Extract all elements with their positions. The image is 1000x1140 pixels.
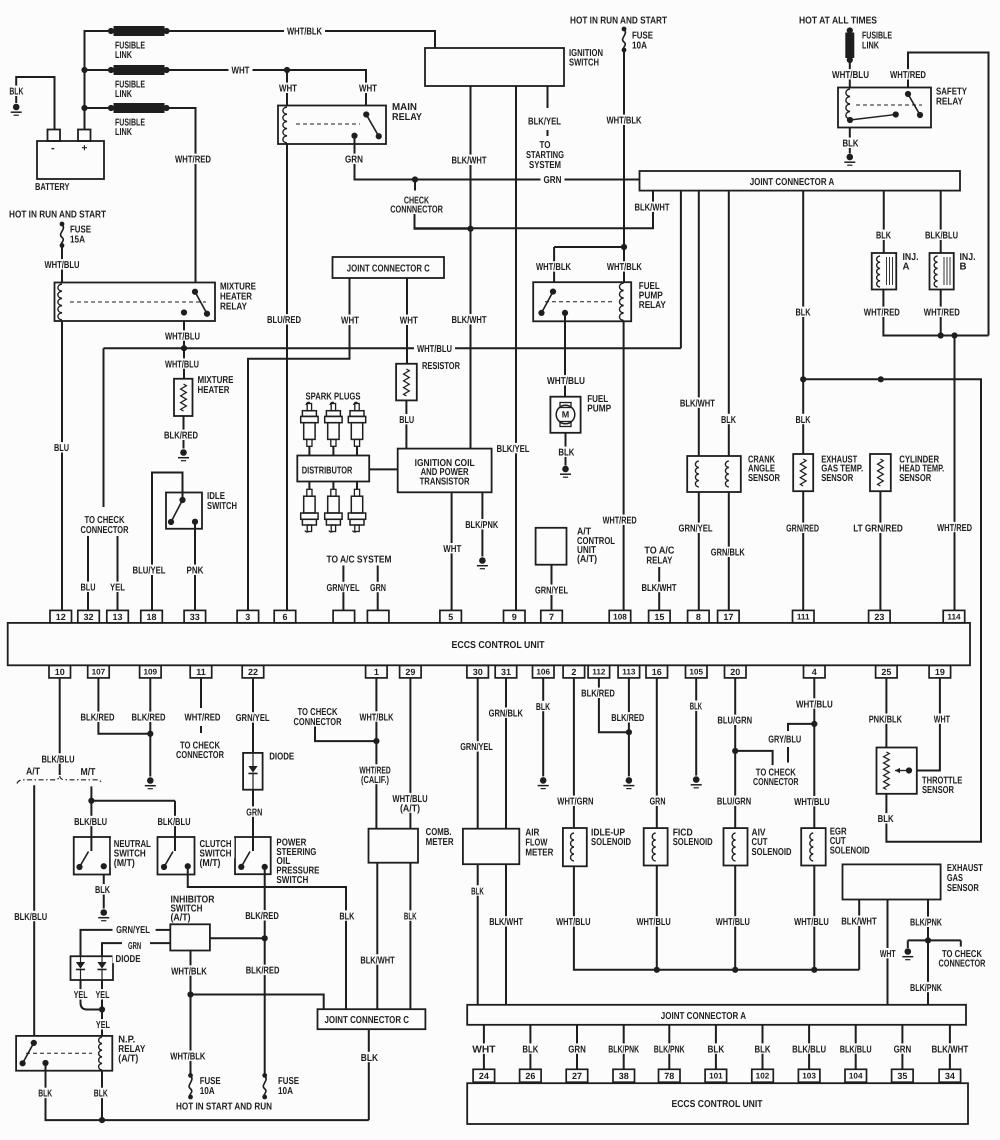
wire WHT pin 19 to throttle sensor (917, 678, 940, 771)
svg-text:BLK/WHT: BLK/WHT (452, 315, 487, 326)
svg-text:-: - (51, 143, 55, 155)
svg-text:WHT/RED: WHT/RED (924, 308, 960, 319)
svg-text:RELAY: RELAY (220, 302, 247, 313)
svg-text:WHT: WHT (359, 84, 377, 95)
svg-text:SENSOR: SENSOR (922, 785, 955, 796)
svg-text:WHT/GRN: WHT/GRN (557, 797, 593, 808)
wire BLK/PNK ignition coil to ground (481, 492, 483, 556)
svg-text:CONNNECTOR: CONNNECTOR (390, 204, 443, 215)
svg-text:1: 1 (374, 667, 379, 677)
svg-text:LINK: LINK (862, 41, 880, 52)
svg-text:BLK/RED: BLK/RED (245, 911, 279, 922)
stub to A/C relay (pin 15) (658, 567, 660, 610)
svg-text:YEL: YEL (96, 1020, 110, 1031)
fuse 10A (hot in run and start) (622, 27, 627, 247)
svg-text:BLK: BLK (558, 448, 575, 459)
svg-text:PNK: PNK (187, 566, 205, 577)
svg-text:SYSTEM: SYSTEM (529, 160, 561, 171)
fuel pump (550, 397, 580, 433)
wire PNK/BLK pin 25 to throttle sensor (885, 678, 887, 748)
svg-text:BLK/WHT: BLK/WHT (680, 398, 715, 409)
svg-text:(A/T): (A/T) (118, 1053, 138, 1064)
svg-text:CONNECTOR: CONNECTOR (81, 525, 130, 536)
svg-text:SENSOR: SENSOR (947, 883, 980, 894)
fuse 10A (BLK/RED) (262, 1073, 267, 1099)
wire WHT/RED fusible link 3 to mixture heater relay (167, 108, 196, 283)
svg-text:JOINT CONNECTOR A: JOINT CONNECTOR A (750, 177, 835, 188)
svg-text:WHT: WHT (443, 544, 461, 555)
svg-text:WHT/BLU: WHT/BLU (547, 376, 585, 387)
wire BLK air flow meter to joint connector A (477, 864, 479, 1005)
wire BLK/WHT exhaust gas sensor to solenoid bus (858, 900, 860, 970)
svg-text:101: 101 (709, 1072, 723, 1081)
svg-text:SWITCH: SWITCH (276, 875, 308, 886)
ground (ignition coil) (477, 557, 488, 569)
svg-text:113: 113 (622, 668, 636, 677)
svg-text:(A/T): (A/T) (577, 554, 597, 565)
wire BLK/RED mixture heater to ground (183, 416, 185, 449)
injector INJ. A (872, 253, 897, 290)
svg-text:GRN: GRN (568, 1044, 586, 1055)
wire battery positive to fusible links (81, 31, 108, 130)
svg-text:BLK/BLU: BLK/BLU (74, 817, 107, 828)
svg-text:GRN/BLK: GRN/BLK (711, 548, 746, 559)
svg-text:6: 6 (282, 612, 287, 622)
svg-text:BLK: BLK (471, 886, 484, 897)
ignition switch (425, 48, 564, 86)
wire GRN main relay to joint connector A (355, 136, 640, 183)
joint connector C (top) (333, 257, 445, 278)
ground (pin 113) (623, 777, 634, 788)
svg-text:27: 27 (572, 1071, 582, 1081)
svg-text:BLK/RED: BLK/RED (81, 713, 115, 724)
svg-text:GRY/BLU: GRY/BLU (768, 735, 801, 746)
fusible link 3 (108, 104, 170, 113)
svg-text:BLU/GRN: BLU/GRN (717, 797, 751, 808)
wire BLK/WHT air flow meter to joint connector A (505, 864, 507, 1005)
svg-text:SENSOR: SENSOR (899, 473, 932, 484)
wire WHT/RED to pin 114 (954, 336, 956, 611)
svg-text:BLK/WHT: BLK/WHT (635, 203, 670, 214)
svg-text:GRN: GRN (246, 807, 262, 818)
wire BLK fuel pump to ground (565, 433, 567, 466)
svg-text:M/T: M/T (81, 767, 96, 778)
svg-text:WHT/BLK: WHT/BLK (536, 262, 572, 273)
wire BLK/RED pin 112 to pin 113 joint (599, 678, 629, 732)
A/T M/T brace (17, 776, 102, 784)
svg-text:(A/T): (A/T) (171, 913, 191, 924)
wire PNK idle switch to pin 33 (194, 522, 196, 610)
svg-text:30: 30 (473, 667, 483, 677)
svg-text:DIODE: DIODE (269, 752, 294, 763)
svg-text:BLU/YEL: BLU/YEL (133, 566, 166, 577)
svg-text:BLK: BLK (361, 1053, 379, 1064)
svg-text:BLK: BLK (690, 702, 703, 713)
svg-text:WHT/BLU: WHT/BLU (165, 359, 199, 370)
injector INJ. B (930, 253, 954, 290)
svg-text:BLU/GRN: BLU/GRN (717, 716, 752, 727)
wire BLK/WHT comb meter to joint connector C (376, 863, 378, 1010)
ECCS control unit (8, 623, 970, 665)
svg-text:4: 4 (812, 667, 817, 677)
svg-text:JOINT CONNECTOR C: JOINT CONNECTOR C (347, 263, 430, 274)
wire WHT/BLK pin 1 to comb meter (315, 678, 380, 829)
wire GRN/YEL pin 30 to air flow meter (477, 678, 479, 829)
svg-text:SENSOR: SENSOR (748, 473, 781, 484)
svg-text:TRANSISTOR: TRANSISTOR (420, 476, 471, 487)
svg-text:SOLENOID: SOLENOID (752, 847, 792, 858)
svg-text:RELAY: RELAY (392, 112, 422, 123)
svg-text:2: 2 (571, 667, 576, 677)
ground (fuel pump) (560, 466, 571, 478)
svg-text:BLK/RED: BLK/RED (164, 431, 198, 442)
svg-text:13: 13 (112, 612, 122, 622)
svg-text:HOT IN RUN AND START: HOT IN RUN AND START (9, 209, 106, 220)
svg-text:10A: 10A (632, 41, 647, 52)
joint connector A (top) (640, 171, 961, 191)
EGR cut solenoid (801, 828, 826, 865)
wire BLK joint connector C to bottom rail (368, 1029, 370, 1120)
exhaust gas temp sensor (793, 454, 813, 491)
wire BLU mixture heater relay coil to pin 12 (61, 321, 63, 610)
svg-text:3: 3 (245, 612, 250, 622)
svg-text:102: 102 (756, 1072, 770, 1081)
svg-text:LINK: LINK (115, 127, 133, 138)
wire GRN diode to power steering switch (252, 790, 254, 837)
svg-text:BLK/RED: BLK/RED (611, 713, 644, 724)
svg-text:BLK: BLK (95, 885, 111, 896)
fusible link (hot at all times) (846, 27, 854, 87)
svg-text:BLK/WHT: BLK/WHT (932, 1044, 969, 1055)
svg-text:ECCS CONTROL UNIT: ECCS CONTROL UNIT (672, 1099, 763, 1110)
svg-text:PNK/BLK: PNK/BLK (869, 715, 903, 726)
wire BLK/WHT joint connector A to check connector line (415, 191, 654, 229)
svg-text:DISTRIBUTOR: DISTRIBUTOR (302, 466, 353, 477)
svg-text:YEL: YEL (96, 990, 110, 1001)
wire GRN/YEL inhibitor to diodes (81, 930, 113, 956)
svg-text:BLK/WHT: BLK/WHT (642, 583, 677, 594)
wire BLK sensor ground bus (803, 376, 981, 842)
svg-text:JOINT CONNECTOR A: JOINT CONNECTOR A (661, 1011, 746, 1022)
svg-text:A/T: A/T (26, 767, 40, 778)
wire BLK neutral switch to ground (103, 875, 105, 909)
wire BLK pin 106 to ground (542, 678, 544, 777)
wire WHT/RED injector bus (883, 290, 988, 339)
svg-text:WHT/BLU: WHT/BLU (417, 344, 452, 355)
svg-text:WHT/BLU: WHT/BLU (45, 260, 80, 271)
fusible link 2 (108, 66, 170, 75)
svg-text:BLK/YEL: BLK/YEL (497, 444, 530, 455)
svg-text:35: 35 (897, 1071, 907, 1081)
svg-text:SWITCH: SWITCH (569, 58, 599, 69)
svg-text:19: 19 (935, 667, 945, 677)
svg-text:BLK: BLK (9, 87, 24, 98)
svg-text:16: 16 (652, 667, 662, 677)
wire BLK/BLU A/T branch to N.P. relay (33, 785, 35, 1036)
wire BLU/YEL idle switch to pin 18 (152, 473, 183, 611)
svg-text:SWITCH: SWITCH (207, 501, 237, 512)
wire BLK comb meter to joint connector C (409, 863, 411, 1010)
svg-text:GRN: GRN (345, 155, 363, 166)
svg-text:26: 26 (525, 1071, 535, 1081)
svg-text:31: 31 (501, 667, 511, 677)
svg-text:107: 107 (92, 668, 106, 677)
wire WHT/BLU fuel pump relay to fuel pump (564, 313, 566, 397)
svg-text:BLK/BLU: BLK/BLU (14, 912, 47, 923)
svg-text:WHT: WHT (341, 316, 359, 327)
svg-text:BLK/PNK: BLK/PNK (654, 1044, 685, 1055)
wire distributor to ignition coil (369, 468, 398, 470)
crank angle sensor (687, 456, 741, 492)
svg-text:WHT/RED: WHT/RED (890, 70, 926, 81)
svg-text:LINK: LINK (115, 89, 133, 100)
svg-text:24: 24 (479, 1071, 489, 1081)
svg-text:7: 7 (549, 612, 554, 622)
svg-text:106: 106 (536, 668, 550, 677)
mixture heater relay (55, 283, 216, 322)
svg-text:WHT/RED: WHT/RED (937, 523, 972, 534)
wire WHT/RED fuel pump relay coil to pin 108 (623, 321, 625, 610)
main relay (278, 106, 386, 145)
svg-text:(A/T): (A/T) (400, 803, 420, 814)
wire BLK pin 105 to ground (695, 678, 697, 776)
A/T control unit (536, 528, 567, 610)
stubs to A/C system (pins blank) (343, 566, 377, 611)
svg-text:GRN/RED: GRN/RED (786, 524, 819, 535)
ignition coil and power transistor (398, 449, 492, 493)
svg-text:ECCS CONTROL UNIT: ECCS CONTROL UNIT (452, 640, 545, 651)
wire BLK safety relay to ground (849, 128, 851, 154)
svg-text:10A: 10A (200, 1086, 215, 1097)
svg-text:BLK/PNK: BLK/PNK (910, 983, 943, 994)
joint connector C (bottom) (318, 1009, 426, 1029)
svg-text:SENSOR: SENSOR (821, 473, 854, 484)
wire BLK/BLU M/T branch (88, 786, 175, 837)
wire GRN/YEL pin 22 to diode (252, 678, 254, 753)
safety relay (838, 88, 931, 128)
svg-text:BLK/BLU: BLK/BLU (925, 231, 958, 242)
svg-text:8: 8 (696, 612, 701, 622)
svg-text:WHT/BLK: WHT/BLK (360, 712, 395, 723)
svg-text:SPARK PLUGS: SPARK PLUGS (306, 391, 361, 402)
svg-text:YEL: YEL (74, 990, 88, 1001)
svg-text:BLK: BLK (843, 139, 860, 150)
svg-text:BLK: BLK (339, 911, 355, 922)
fuel pump relay (533, 282, 631, 321)
svg-text:WHT/BLU: WHT/BLU (796, 699, 833, 710)
wire GRN pin 16 to FICD solenoid (656, 678, 658, 828)
svg-text:HOT IN START AND RUN: HOT IN START AND RUN (176, 1102, 272, 1113)
svg-text:BLK: BLK (404, 911, 417, 922)
svg-text:BLK/WHT: BLK/WHT (841, 917, 877, 928)
svg-text:SOLENOID: SOLENOID (830, 846, 870, 857)
check connector (upper) (415, 180, 474, 232)
svg-text:BLU: BLU (54, 443, 69, 454)
svg-text:GRN/YEL: GRN/YEL (116, 925, 150, 936)
svg-text:CONNECTOR: CONNECTOR (294, 717, 343, 728)
svg-text:WHT/RED: WHT/RED (864, 308, 900, 319)
svg-text:9: 9 (512, 612, 517, 622)
ground (mixture heater) (178, 449, 189, 461)
svg-text:BLK: BLK (94, 1089, 109, 1100)
svg-text:GRN/YEL: GRN/YEL (460, 742, 493, 753)
svg-text:BLK/BLU: BLK/BLU (840, 1044, 872, 1055)
svg-text:GRN: GRN (650, 797, 666, 808)
svg-text:(M/T): (M/T) (200, 858, 221, 869)
ground (safety relay) (844, 154, 855, 166)
svg-text:GRN: GRN (370, 583, 386, 594)
svg-text:BLK/BLU: BLK/BLU (158, 817, 191, 828)
wire WHT ignition coil to pin 5 (451, 492, 453, 610)
svg-text:SOLENOID: SOLENOID (673, 837, 713, 848)
cylinder head temp sensor (870, 454, 891, 491)
svg-text:RELAY: RELAY (639, 300, 666, 311)
svg-text:RESISTOR: RESISTOR (422, 361, 461, 372)
fusible link 1 (108, 27, 170, 36)
svg-text:BLK/PNK: BLK/PNK (465, 520, 499, 531)
svg-text:BLK: BLK (796, 415, 812, 426)
wire WHT joint connector C to resistor (406, 278, 408, 364)
svg-text:(CALIF.): (CALIF.) (361, 775, 389, 786)
svg-text:111: 111 (797, 613, 810, 622)
svg-text:GRN: GRN (894, 1044, 912, 1055)
wire BLK/WHT joint connector A to crank angle sensor (698, 191, 700, 456)
svg-text:BLK: BLK (755, 1044, 772, 1055)
diode (pin 22) (243, 753, 263, 790)
spark plugs (lower) (301, 482, 366, 533)
spark plugs (301, 402, 366, 455)
svg-text:17: 17 (723, 612, 733, 622)
joint connector A (bottom) (467, 1005, 966, 1025)
wire BLK/YEL to starting system (547, 86, 549, 136)
svg-text:11: 11 (196, 667, 206, 677)
wire BLK/RED pin 107 to ground joint (98, 678, 150, 734)
svg-text:LINK: LINK (115, 50, 133, 61)
svg-text:WHT/BLK: WHT/BLK (171, 966, 207, 977)
svg-text:10A: 10A (278, 1086, 293, 1097)
svg-text:JOINT CONNECTOR C: JOINT CONNECTOR C (325, 1015, 410, 1026)
wire BLK/PNK exhaust gas sensor to joint connector A (908, 900, 961, 1005)
wire GRN/YEL crank angle sensor to pin 8 (698, 492, 700, 610)
svg-text:BLK: BLK (708, 1044, 725, 1055)
svg-text:WHT/BLU: WHT/BLU (794, 797, 830, 808)
wire WHT/BLU pin 4 to EGR cut solenoid (788, 678, 817, 828)
wire WHT/BLU mixture heater relay to heater line (181, 321, 187, 351)
wire BLU resistor to ignition coil (405, 400, 407, 448)
inhibitor switch (A/T) (150, 924, 265, 950)
ECCS pin boxes (49, 610, 965, 1082)
svg-text:BLK: BLK (721, 415, 737, 426)
wire WHT/BLK to fuel pump relay (554, 244, 627, 282)
svg-text:WHT/BLU: WHT/BLU (794, 917, 829, 928)
wire WHT joint connector C to pin 3 (248, 278, 350, 610)
svg-text:BLK/WHT: BLK/WHT (452, 156, 487, 167)
stub WHT/RED pin 11 to check connector (200, 678, 202, 733)
svg-text:10: 10 (55, 667, 65, 677)
svg-text:29: 29 (405, 667, 415, 677)
svg-text:WHT: WHT (472, 1044, 495, 1055)
wire BLK joint connector A to crank angle sensor (728, 191, 730, 456)
ground (pin 105) (691, 776, 702, 788)
wire WHT/BLU solenoid common bus (574, 866, 859, 973)
wire BLK/RED pin 113 to ground (626, 678, 632, 777)
svg-text:WHT/RED: WHT/RED (185, 713, 221, 724)
svg-text:YEL: YEL (110, 583, 125, 594)
svg-text:34: 34 (945, 1071, 955, 1081)
svg-text:BLU/RED: BLU/RED (267, 315, 301, 326)
wire GRN inhibitor to diodes (102, 943, 122, 956)
svg-text:38: 38 (619, 1071, 629, 1081)
svg-text:103: 103 (802, 1072, 816, 1081)
svg-text:GRN/YEL: GRN/YEL (327, 583, 360, 594)
svg-text:WHT/BLK: WHT/BLK (287, 27, 323, 38)
svg-text:WHT: WHT (232, 66, 250, 77)
ground (battery) (11, 104, 22, 116)
wire BLK clutch switch to joint connector C (188, 866, 346, 1009)
wire WHT fusible link 2 to main relay (167, 67, 367, 106)
svg-text:22: 22 (248, 667, 258, 677)
wire BLK/WHT ignition switch to ignition coil (470, 86, 472, 449)
svg-text:109: 109 (143, 668, 157, 677)
svg-text:GRN/YEL: GRN/YEL (535, 586, 568, 597)
ground wire BLK (battery negative) (16, 77, 54, 130)
svg-text:BLK/PNK: BLK/PNK (608, 1044, 639, 1055)
svg-text:GRN: GRN (128, 941, 141, 952)
svg-text:CONNECTOR: CONNECTOR (176, 750, 225, 761)
svg-text:WHT: WHT (934, 715, 950, 726)
svg-text:18: 18 (146, 612, 156, 622)
comb meter (369, 829, 419, 863)
svg-text:HOT AT ALL TIMES: HOT AT ALL TIMES (799, 16, 877, 27)
wire BLK joint connector A to sensor bus (800, 191, 806, 454)
svg-text:25: 25 (881, 667, 891, 677)
neutral switch (M/T) (74, 837, 110, 875)
svg-text:GRN/YEL: GRN/YEL (679, 524, 713, 535)
svg-text:112: 112 (592, 668, 606, 677)
N.P. relay (A/T) (16, 1036, 112, 1071)
svg-text:(M/T): (M/T) (114, 858, 135, 869)
fuse 10A (WHT/BLK) (188, 1073, 193, 1099)
AIV cut solenoid (724, 828, 748, 865)
svg-text:WHT/BLU: WHT/BLU (556, 917, 590, 928)
svg-text:BLK/RED: BLK/RED (581, 689, 615, 700)
svg-text:WHT/RED: WHT/RED (175, 155, 211, 166)
svg-text:33: 33 (190, 612, 200, 622)
svg-text:WHT: WHT (279, 84, 297, 95)
distributor (297, 456, 369, 482)
wire YEL diodes join (81, 980, 106, 1036)
wire LT GRN/RED cylinder head temp sensor to pin 23 (879, 491, 881, 610)
svg-text:RELAY: RELAY (936, 97, 963, 108)
svg-text:108: 108 (613, 613, 627, 622)
wire WHT/BLU heater distribution line (104, 348, 681, 507)
svg-text:HEATER: HEATER (198, 385, 231, 396)
battery (37, 130, 104, 180)
svg-text:BLK: BLK (536, 702, 551, 713)
svg-text:5: 5 (448, 612, 453, 622)
diode pair (A/T) (71, 956, 114, 980)
svg-text:BLK/RED: BLK/RED (246, 966, 280, 977)
wire GRN/BLK crank angle sensor to pin 17 (728, 492, 730, 610)
throttle sensor (877, 748, 917, 794)
svg-text:32: 32 (83, 612, 93, 622)
ground (pin 106) (538, 777, 549, 788)
svg-text:METER: METER (426, 837, 455, 848)
svg-text:GRN: GRN (544, 175, 562, 186)
svg-text:BLK/BLU: BLK/BLU (42, 754, 75, 765)
ground (neutral switch) (98, 909, 109, 921)
wire BLK/RED pin 109 to ground (147, 678, 153, 777)
